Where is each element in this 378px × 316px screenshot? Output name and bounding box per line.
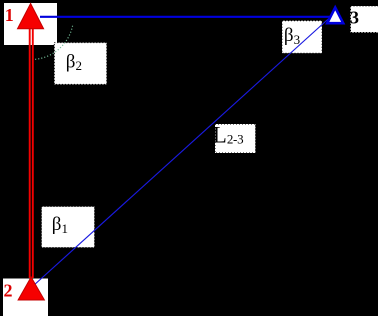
angle beta1 label box bbox=[42, 207, 95, 248]
station 1 triangle marker (red) bbox=[18, 4, 44, 29]
station 1 label box bbox=[4, 3, 57, 45]
angle beta3 label box bbox=[282, 21, 322, 54]
svg-text:2: 2 bbox=[4, 281, 13, 301]
svg-text:3: 3 bbox=[350, 8, 359, 28]
svg-text:1: 1 bbox=[5, 5, 14, 25]
station 2 triangle marker (red) bbox=[18, 277, 44, 300]
angle arc at station 1 (dotted green) bbox=[32, 26, 73, 60]
distance L2-3 label box (covers diagonal) bbox=[215, 124, 256, 153]
angle beta2 label box bbox=[54, 43, 106, 85]
station 2 label box bbox=[3, 279, 48, 316]
sight line 2-3 (diagonal blue) bbox=[33, 17, 331, 287]
station 3 triangle marker (blue outline) bbox=[327, 8, 343, 24]
baseline 1-2 double red line, left stroke bbox=[29, 26, 31, 278]
sight line 1-3 (horizontal blue) bbox=[40, 16, 331, 18]
baseline 1-2 double red line, right stroke bbox=[32, 26, 34, 278]
station 3 label box bbox=[351, 6, 378, 33]
